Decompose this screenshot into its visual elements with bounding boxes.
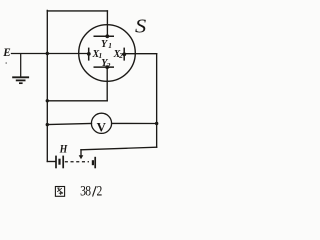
svg-text:2: 2 <box>106 61 111 70</box>
caption slash reinforcement <box>93 186 97 196</box>
node: bottom plate net / left bus <box>46 99 49 102</box>
tap arrowhead <box>79 155 84 159</box>
wire: top stem into CRT <box>106 11 108 36</box>
svg-text:S: S <box>135 15 147 38</box>
svg-text:8: 8 <box>85 182 91 199</box>
node: Y2 plate junction <box>105 65 109 69</box>
plate X1 (left) <box>88 48 90 61</box>
node: Y1 plate junction <box>105 34 109 38</box>
svg-text:E: E <box>2 47 10 59</box>
svg-text:V: V <box>97 120 107 134</box>
battery tap dashed wire <box>65 161 89 163</box>
wire: battery left lead <box>47 161 55 163</box>
battery last cell <box>92 160 94 165</box>
caption: 图 glyph drawn <box>55 187 64 197</box>
wire: V meter right lead <box>112 122 157 124</box>
svg-text:2: 2 <box>97 182 103 199</box>
wire: bottom return to tap arrow <box>81 147 157 150</box>
svg-text:Y: Y <box>101 39 108 50</box>
plate Y2 (bottom) <box>94 66 115 68</box>
wire: V meter left lead <box>47 124 91 125</box>
plate X2 (right) <box>123 48 125 61</box>
battery H cells <box>56 156 95 169</box>
wire: left vertical bus <box>46 10 48 161</box>
scan speck <box>5 62 7 64</box>
node: E wire / left bus <box>46 52 49 55</box>
voltmeter V <box>91 113 111 133</box>
wire: right vertical bus <box>156 54 158 148</box>
ground <box>12 54 29 84</box>
wire: horizontal to left bus (bottom plate net) <box>47 100 107 102</box>
node: V wire / left bus <box>46 123 49 126</box>
svg-text:1: 1 <box>108 41 112 50</box>
node: X2 plate junction <box>122 52 126 56</box>
svg-text:H: H <box>59 143 68 156</box>
node: V wire / right bus <box>155 122 158 125</box>
wire: bottom stem from bottom plate <box>106 67 108 101</box>
wire: tap arrow stem <box>80 150 82 156</box>
wire: E lead to left plate <box>12 53 89 55</box>
wire: right plate lead to right bus <box>124 53 156 55</box>
CRT tube S (screen face) <box>79 25 136 82</box>
svg-text:2: 2 <box>118 51 123 60</box>
plate Y1 (top) <box>94 35 115 37</box>
node: X1 plate junction <box>87 52 91 56</box>
wire: top horizontal <box>47 10 107 12</box>
